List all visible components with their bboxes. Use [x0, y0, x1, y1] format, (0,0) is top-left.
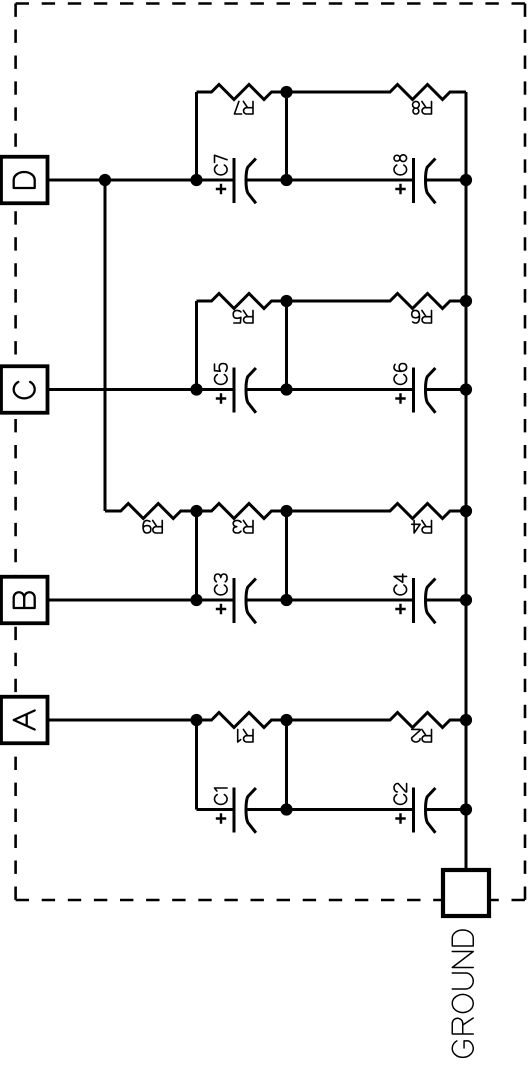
capacitor C8: [287, 158, 467, 203]
resistor R2: [287, 713, 467, 728]
resistor R9: [105, 504, 197, 519]
wire R1-R2 node down to C1/C2 node: [285, 720, 288, 810]
label C6: [394, 364, 407, 385]
node D / C7 junction: [190, 174, 202, 186]
node B-row to ground bus: [460, 594, 472, 606]
node B / C3 junction: [190, 594, 202, 606]
node R9/R3 junction: [190, 505, 202, 517]
plus sign of C7: [216, 184, 226, 194]
label C5: [215, 364, 228, 385]
label C8: [394, 155, 407, 175]
node A-row to ground bus: [460, 714, 472, 726]
resistor R6: [287, 294, 467, 309]
label R8: [413, 101, 432, 114]
wire node D to C7: [48, 179, 235, 182]
resistor R8: [287, 85, 467, 100]
terminal box D: [1, 157, 48, 204]
resistor R7: [197, 85, 287, 100]
capacitor C5: [234, 368, 287, 413]
wire node A to R1: [48, 719, 212, 722]
node R4 to ground bus: [460, 505, 472, 517]
node C3/C4 junction: [280, 594, 292, 606]
resistor R4: [287, 504, 467, 519]
node R5/R6 junction: [280, 295, 292, 307]
node R1/R2 junction: [280, 714, 292, 726]
node D junction to R9 branch: [99, 174, 111, 186]
node C5/C6 junction: [280, 383, 292, 395]
wire R5-R6 node down to cap line: [285, 301, 288, 390]
resistor R1: [197, 713, 287, 728]
node D-row to ground bus: [460, 174, 472, 186]
label R4: [412, 520, 432, 533]
plus sign of C4: [395, 604, 405, 614]
wire R3-R4 node down to cap line: [285, 511, 288, 600]
node C-row to ground bus: [460, 383, 472, 395]
wire down to C1: [195, 720, 198, 810]
node A / R1 junction: [190, 714, 202, 726]
capacitor C1: [197, 788, 287, 833]
label GROUND: [452, 930, 473, 1057]
ground terminal box: [443, 870, 489, 916]
capacitor C6: [287, 368, 467, 413]
plus sign of C5: [216, 393, 226, 403]
ground bus wire: [465, 92, 468, 870]
wire up to R7 left: [195, 92, 198, 180]
wire node D branch down to R9: [104, 180, 107, 511]
wire up to R9/R3 junction: [195, 511, 198, 600]
wire node B to C3: [48, 599, 235, 602]
label C: [14, 382, 35, 398]
node C7/C8 junction: [280, 174, 292, 186]
label R2: [412, 729, 432, 742]
label D: [14, 172, 35, 188]
wire R7-R8 node down to cap line: [285, 92, 288, 180]
label C1: [215, 788, 228, 804]
node C2 to ground bus: [460, 803, 472, 815]
capacitor C7: [234, 158, 287, 203]
node R7/R8 junction: [280, 86, 292, 98]
plus sign of C2: [395, 813, 405, 823]
label R7: [234, 101, 253, 114]
wire node C to C5: [48, 388, 235, 391]
label R5: [233, 310, 253, 323]
label R3: [233, 520, 253, 533]
node C1/C2 junction: [280, 803, 292, 815]
capacitor C3: [234, 578, 287, 623]
capacitor C4: [287, 578, 467, 623]
node R6 to ground bus: [460, 295, 472, 307]
wire up to R5 left: [195, 301, 198, 390]
terminal box B: [1, 577, 48, 624]
plus sign of C1: [216, 813, 226, 823]
terminal box C: [1, 366, 48, 413]
label R1: [238, 729, 253, 742]
label R6: [412, 310, 432, 323]
label B: [14, 592, 35, 608]
label A: [14, 711, 35, 730]
resistor R3: [197, 504, 287, 519]
label C3: [215, 574, 228, 595]
resistor R5: [197, 294, 287, 309]
label R9: [143, 520, 162, 533]
node C / C5 junction: [190, 383, 202, 395]
terminal box A: [1, 697, 48, 744]
label C7: [215, 155, 228, 175]
plus sign of C3: [216, 604, 226, 614]
capacitor C2: [287, 788, 467, 833]
plus sign of C8: [395, 184, 405, 194]
node R3/R4 junction: [280, 505, 292, 517]
label C4: [394, 574, 407, 595]
plus sign of C6: [395, 393, 405, 403]
label C2: [394, 784, 407, 805]
